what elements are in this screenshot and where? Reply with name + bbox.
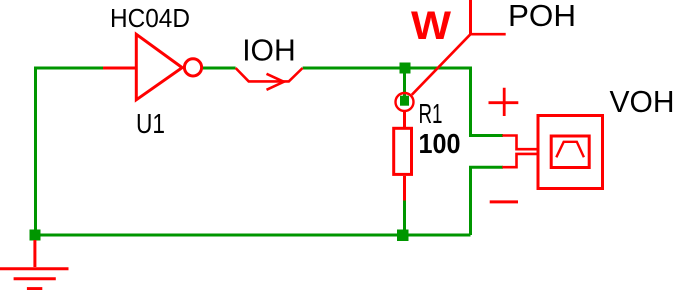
probe connection circle at R1 top [396, 93, 414, 111]
resistor R1 top lead [403, 112, 406, 129]
minus sign [490, 200, 518, 203]
svg-text:HC04D: HC04D [110, 3, 190, 33]
wattmeter W probe diagonal [412, 34, 471, 95]
inverter U1 triangle [136, 34, 182, 100]
wire R1 bottom stub [403, 201, 406, 236]
svg-text:VOH: VOH [610, 85, 674, 119]
resistor R1 body [394, 128, 412, 174]
ground bar 1 [0, 267, 69, 270]
scope minus lead red segment [502, 154, 536, 167]
wire node corner down to scope plus lead [471, 67, 504, 136]
wire ground rail [35, 234, 471, 237]
resistor R1 bottom lead [403, 176, 406, 201]
ground bar 2 [14, 277, 56, 280]
inverter U1 output bubble [184, 59, 201, 76]
svg-text:POH: POH [508, 0, 576, 33]
scope outer box [538, 116, 603, 189]
plus sign [489, 88, 519, 116]
ground stub [33, 240, 36, 267]
svg-text:IOH: IOH [242, 33, 296, 68]
node dot inside probe circle [400, 96, 409, 106]
wattmeter W probe horizontal to POH [471, 33, 506, 36]
scope waveform [556, 142, 584, 158]
svg-text:U1: U1 [136, 108, 165, 139]
ammeter IOH arrow head [267, 74, 284, 90]
svg-text:W: W [411, 4, 451, 48]
wattmeter W probe vertical riser [469, 0, 472, 34]
scope plus lead red segment [502, 136, 536, 150]
junction node A (output of U1 / top of R1 branch) [400, 63, 411, 74]
svg-text:100: 100 [419, 128, 461, 159]
wire scope minus lead down to ground rail [471, 167, 504, 235]
junction node C (ground symbol tie) [30, 230, 41, 241]
wire ammeter to node corner [303, 67, 471, 70]
inverter U1 input pin [103, 67, 135, 70]
svg-text:R1: R1 [419, 98, 443, 129]
scope inner screen box [551, 136, 589, 168]
wire input net: left horizontal + left vertical [36, 68, 104, 235]
ammeter IOH dip [236, 68, 303, 81]
wire R1 top stub [403, 68, 406, 100]
junction node B (bottom of R1 branch on ground rail) [397, 230, 409, 242]
wire inverter output to ammeter [203, 67, 236, 70]
ground bar 3 [27, 287, 42, 290]
